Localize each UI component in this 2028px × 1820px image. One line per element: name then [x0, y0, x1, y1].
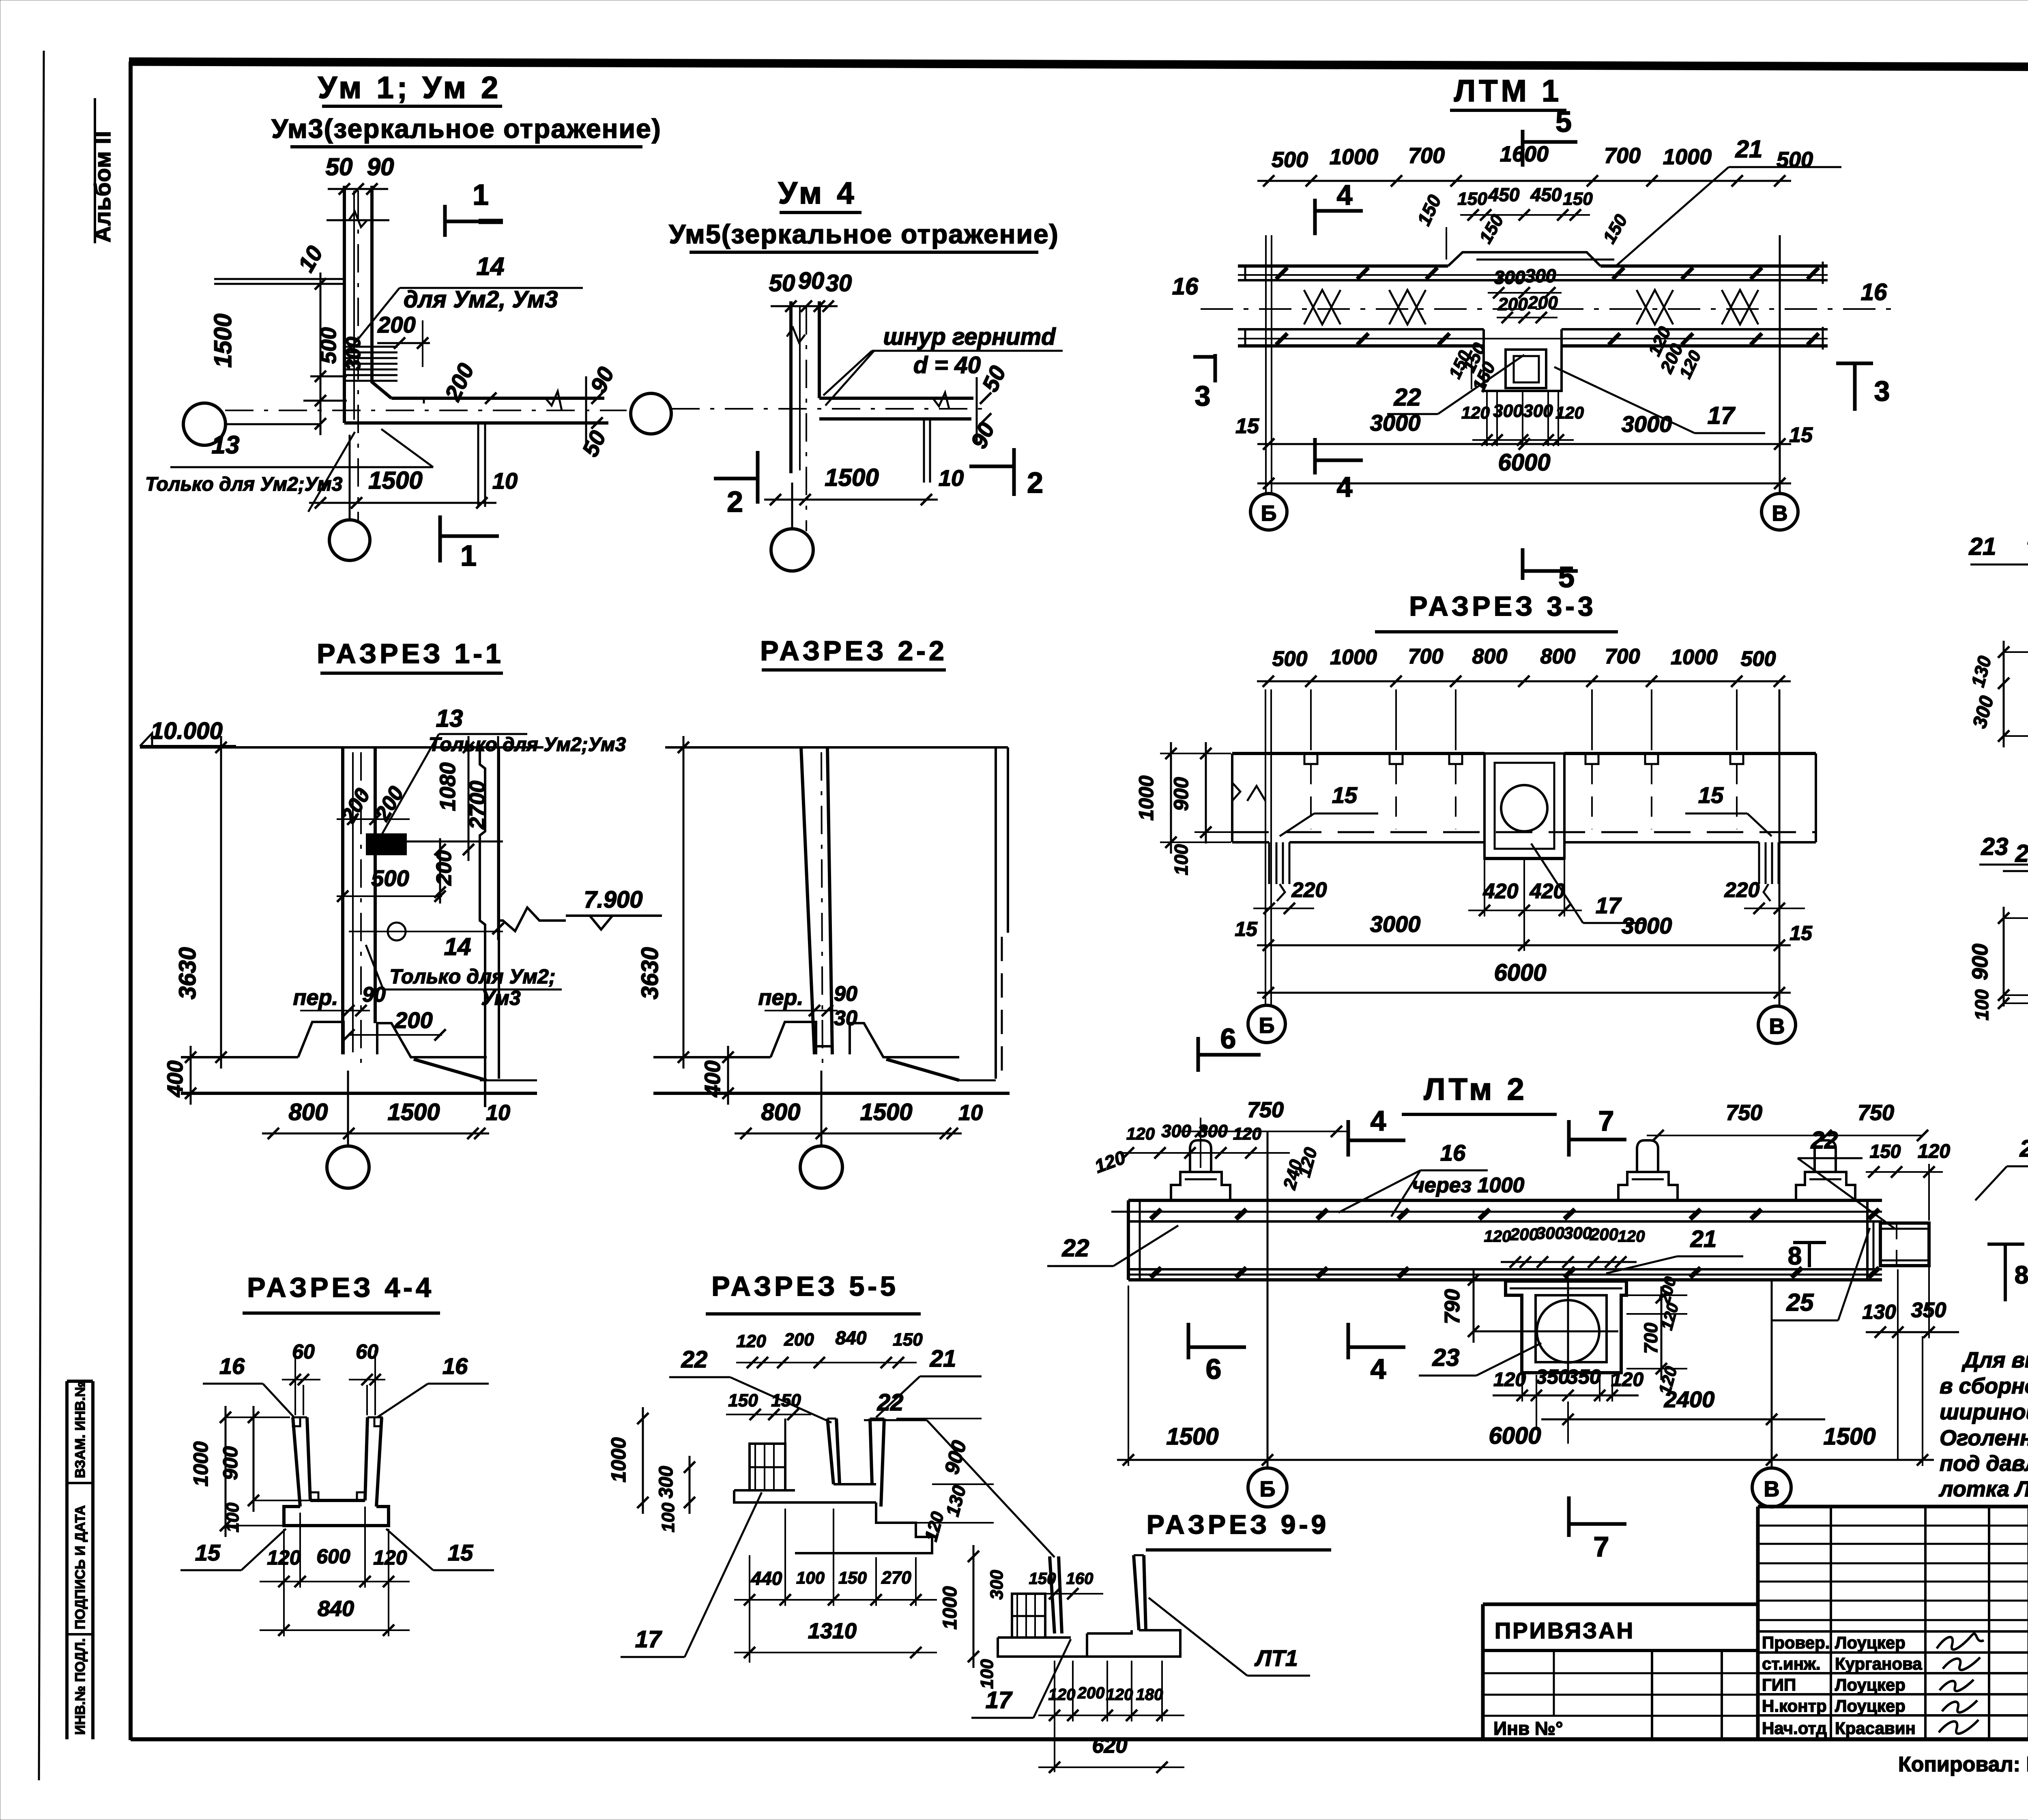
Um1 corner and horizontal wall [372, 379, 391, 398]
LTM2 axis circle B [1248, 1468, 1287, 1507]
LTM2 section mark 7 top [1567, 1120, 1571, 1157]
svg-text:Ум5(зеркальное отражение): Ум5(зеркальное отражение) [669, 219, 1059, 249]
svg-text:6000: 6000 [1494, 959, 1546, 986]
9-9 section body [1050, 1556, 1055, 1633]
svg-text:150: 150 [771, 1391, 801, 1410]
svg-text:300: 300 [1161, 1121, 1191, 1141]
svg-text:ВЗАМ. ИНВ.№: ВЗАМ. ИНВ.№ [73, 1382, 88, 1478]
svg-text:15: 15 [1332, 782, 1358, 808]
svg-text:23: 23 [1981, 833, 2009, 860]
svg-text:30: 30 [834, 1007, 857, 1030]
LTM2 section mark 4 top [1347, 1120, 1350, 1157]
svg-text:17: 17 [635, 1626, 662, 1653]
svg-text:500: 500 [1741, 647, 1776, 671]
svg-text:1000: 1000 [1135, 775, 1158, 820]
LTM1 axis circle B [1250, 494, 1287, 530]
2-2 bottom circle [800, 1146, 842, 1188]
svg-text:1000: 1000 [1663, 145, 1712, 169]
4-4 inner corner notches [310, 1492, 318, 1500]
1-1 right element profile [480, 747, 485, 1107]
svg-text:200: 200 [1527, 293, 1558, 313]
title block signatures scribbles [1937, 1634, 1984, 1650]
svg-text:900: 900 [1170, 777, 1192, 811]
svg-text:600: 600 [316, 1545, 350, 1568]
svg-text:14: 14 [477, 253, 505, 281]
svg-text:450: 450 [1530, 184, 1562, 205]
4-4 left dims 1000 900 100 [225, 1406, 227, 1537]
svg-text:150: 150 [1870, 1141, 1901, 1162]
svg-text:4: 4 [1337, 179, 1353, 211]
svg-text:220: 220 [1724, 878, 1760, 902]
svg-text:Ум 4: Ум 4 [778, 176, 857, 210]
svg-text:Красавин: Красавин [1835, 1719, 1916, 1738]
LTM2 hatch marks top band [1151, 1209, 1161, 1219]
5-5 section body [827, 1419, 834, 1484]
3-3 feet under slab right [1758, 842, 1760, 884]
LTM1 body bottom band [1238, 328, 1484, 331]
svg-text:РАЗРЕЗ 3-3: РАЗРЕЗ 3-3 [1409, 591, 1596, 622]
5-5 right dims 900 130 120 [896, 1418, 982, 1419]
svg-text:120: 120 [1618, 1228, 1645, 1245]
1-1 bottom circle [327, 1146, 369, 1188]
svg-text:200: 200 [432, 850, 456, 886]
svg-text:4: 4 [1371, 1105, 1386, 1137]
LTM1 top dim row [1257, 180, 1791, 182]
svg-text:Ум 1; Ум 2: Ум 1; Ум 2 [318, 71, 502, 105]
5-5 left dims 1000 300 150 150 [642, 1407, 644, 1514]
svg-text:ГИП: ГИП [1762, 1675, 1796, 1694]
9-9 dim 620 [1038, 1766, 1184, 1768]
svg-text:150: 150 [893, 1330, 923, 1350]
svg-text:16: 16 [443, 1353, 468, 1379]
LTM2 hump 2 [1618, 1172, 1678, 1200]
svg-text:21: 21 [1735, 135, 1763, 163]
svg-text:1000: 1000 [1330, 145, 1378, 169]
svg-text:420: 420 [1530, 880, 1565, 903]
svg-text:пер.: пер. [758, 985, 803, 1010]
svg-text:16: 16 [1861, 279, 1887, 305]
svg-text:220: 220 [1291, 878, 1327, 902]
svg-text:420: 420 [1483, 880, 1519, 903]
svg-text:шириной 1100 мм не нарушая: шириной 1100 мм не нарушая арматуру. [1940, 1400, 2028, 1424]
svg-text:100: 100 [796, 1568, 825, 1587]
svg-text:ЛТ1: ЛТ1 [1254, 1645, 1298, 1671]
svg-text:через 1000: через 1000 [1412, 1174, 1525, 1197]
svg-text:200: 200 [1077, 1684, 1105, 1702]
svg-text:15: 15 [1235, 918, 1258, 940]
3-3 dim 3000 3000 [1257, 944, 1791, 946]
svg-text:120: 120 [1611, 1369, 1643, 1391]
svg-text:1000: 1000 [189, 1441, 212, 1486]
4-4 U channel [293, 1417, 300, 1507]
svg-text:Альбом II: Альбом II [90, 131, 115, 243]
svg-text:500: 500 [1272, 148, 1308, 172]
svg-text:4: 4 [1371, 1353, 1386, 1385]
svg-text:13: 13 [212, 431, 240, 459]
svg-text:90: 90 [798, 268, 825, 294]
svg-text:840: 840 [318, 1597, 354, 1621]
3-3 axis circle B [1248, 1005, 1285, 1043]
LTM1 section mark 4 top-left [1313, 199, 1317, 235]
svg-text:Ум3: Ум3 [481, 987, 521, 1009]
LTM2 right end and sleeve [1866, 1200, 1869, 1280]
Um1 wall axis horizontal [225, 410, 627, 411]
svg-text:Оголенную арматуру зачистить: Оголенную арматуру зачистить, промыть во… [1940, 1426, 2028, 1450]
svg-text:120: 120 [1555, 403, 1584, 422]
LTM1 axis circle V [1762, 494, 1798, 530]
svg-text:Лоуцкер: Лоуцкер [1835, 1675, 1906, 1694]
svg-text:15: 15 [1698, 782, 1724, 808]
svg-text:3: 3 [1874, 375, 1890, 407]
svg-text:под давлением и завязать с: под давлением и завязать с арматурой [1940, 1451, 2028, 1476]
1-1 wall verticals [341, 747, 344, 1054]
title block signature grid [1756, 1507, 1760, 1739]
svg-text:В: В [1769, 1014, 1785, 1039]
svg-text:пер.: пер. [293, 985, 338, 1010]
LTM2 body [1128, 1199, 1882, 1202]
Um1 double line 10 below wall [477, 423, 479, 507]
3-3 body slab [1232, 752, 1484, 755]
svg-text:450: 450 [1488, 184, 1520, 205]
svg-text:10: 10 [939, 465, 964, 491]
svg-text:300: 300 [1525, 265, 1556, 286]
svg-text:15: 15 [1789, 423, 1813, 447]
svg-text:130: 130 [1862, 1301, 1896, 1323]
svg-text:24: 24 [2019, 1135, 2028, 1162]
svg-text:Копировал: Коршунова: Копировал: Коршунова [1898, 1753, 2028, 1776]
svg-text:100: 100 [1171, 844, 1192, 875]
svg-text:100: 100 [977, 1659, 997, 1689]
svg-text:120: 120 [1048, 1686, 1076, 1704]
3-3 dim 220 right [1744, 908, 1805, 909]
svg-text:200: 200 [377, 312, 415, 337]
svg-text:2400: 2400 [1664, 1386, 1715, 1412]
Um4 wall vertical [789, 301, 793, 473]
svg-text:23: 23 [1432, 1344, 1460, 1371]
3-3 dim 6000 [1257, 992, 1791, 994]
svg-text:14: 14 [444, 933, 471, 960]
Um1 wall vertical [343, 186, 346, 423]
Um4 bottom circle [771, 529, 813, 571]
svg-text:1310: 1310 [808, 1619, 857, 1643]
svg-text:30: 30 [826, 270, 852, 296]
svg-text:ИНВ.№ ПОДЛ.: ИНВ.№ ПОДЛ. [73, 1638, 88, 1735]
svg-text:400: 400 [700, 1060, 725, 1097]
svg-text:Только для Ум2;Ум3: Только для Ум2;Ум3 [429, 734, 626, 755]
svg-text:120: 120 [1918, 1141, 1950, 1162]
svg-text:ст.инж.: ст.инж. [1762, 1654, 1821, 1673]
Um1 seal comb detail [343, 346, 397, 348]
svg-text:840: 840 [836, 1327, 867, 1348]
svg-text:3000: 3000 [1622, 411, 1672, 437]
svg-text:5: 5 [1558, 561, 1575, 594]
svg-text:Только для Ум2;Ум3: Только для Ум2;Ум3 [145, 474, 343, 495]
svg-text:120: 120 [1106, 1686, 1133, 1704]
1-1 seal rect 13 [367, 835, 406, 854]
8-8 left dims 900 100 [2003, 907, 2005, 1007]
section mark 1 top [443, 205, 447, 237]
svg-text:1600: 1600 [1500, 142, 1549, 166]
svg-text:6: 6 [1206, 1353, 1222, 1385]
3-3 feet under slab left [1268, 842, 1270, 884]
svg-text:300: 300 [342, 337, 365, 371]
2-2 footing [653, 1056, 771, 1058]
svg-text:700: 700 [1604, 144, 1641, 168]
svg-text:1500: 1500 [825, 464, 879, 491]
svg-text:200: 200 [1497, 294, 1528, 314]
svg-text:100: 100 [658, 1502, 678, 1532]
LTM1 grid verticals [1265, 235, 1267, 494]
LTM2 section mark 7 bottom [1567, 1496, 1571, 1537]
svg-text:150: 150 [838, 1568, 867, 1587]
svg-text:ПОДПИСЬ И ДАТА: ПОДПИСЬ И ДАТА [73, 1505, 88, 1629]
svg-text:300: 300 [1198, 1121, 1228, 1141]
LTM2 dim 2400 [1541, 1419, 1825, 1421]
svg-text:лотка ЛТМ3.: лотка ЛТМ3. [1938, 1477, 2028, 1501]
LTM1 section mark 5 top [1521, 130, 1525, 167]
axis circle left [183, 403, 226, 445]
Um1 dim 90 50 right [585, 376, 587, 444]
svg-text:400: 400 [163, 1060, 187, 1097]
svg-text:Ум3(зеркальное отражение): Ум3(зеркальное отражение) [271, 114, 661, 144]
svg-text:300: 300 [1564, 1223, 1592, 1243]
section mark 2 left [756, 451, 760, 504]
1-1 bottom dims 800 1500 10 [262, 1133, 489, 1135]
svg-text:150: 150 [728, 1391, 758, 1410]
sheet outer edge line left [39, 51, 44, 1780]
svg-text:13: 13 [436, 705, 463, 732]
LTM1 section mark 4 bottom [1313, 438, 1317, 474]
svg-text:Только для Ум2;: Только для Ум2; [389, 965, 555, 988]
svg-text:РАЗРЕЗ 4-4: РАЗРЕЗ 4-4 [247, 1272, 434, 1303]
svg-text:120: 120 [1126, 1124, 1155, 1143]
2-2 wall tapered [801, 747, 814, 1054]
svg-text:700: 700 [1605, 645, 1640, 668]
svg-text:РАЗРЕЗ 9-9: РАЗРЕЗ 9-9 [1147, 1509, 1329, 1539]
svg-text:3: 3 [1195, 380, 1211, 412]
svg-text:15: 15 [448, 1540, 473, 1565]
svg-text:8: 8 [2015, 1261, 2028, 1289]
svg-text:Н.контр: Н.контр [1762, 1696, 1827, 1715]
svg-text:300: 300 [655, 1466, 677, 1498]
svg-text:10: 10 [958, 1101, 983, 1125]
svg-text:1500: 1500 [1823, 1423, 1875, 1450]
svg-text:790: 790 [1441, 1289, 1464, 1324]
Um4 wall top dim 50 90 30 [771, 305, 838, 307]
svg-text:1500: 1500 [209, 313, 236, 367]
LTM1 dim 3000 3000 [1257, 443, 1791, 445]
svg-text:200: 200 [394, 1007, 432, 1033]
sidebar stamp strip [65, 1381, 69, 1739]
3-3 axis circle V [1758, 1006, 1796, 1043]
svg-text:500: 500 [371, 865, 409, 891]
Um1 wall axis dashed [357, 191, 359, 520]
svg-text:750: 750 [1247, 1098, 1284, 1122]
svg-text:3630: 3630 [174, 947, 201, 999]
1-1 circle detail mark [388, 923, 406, 940]
svg-text:300: 300 [1494, 267, 1525, 288]
svg-text:440: 440 [751, 1568, 782, 1589]
svg-text:800: 800 [761, 1099, 801, 1125]
axis circle shared right [631, 393, 671, 434]
svg-text:Для выполнения монолитного: Для выполнения монолитного лотка ЛТм3 [1961, 1348, 2028, 1372]
4-4 bottom dims 120 600 120 [260, 1581, 410, 1582]
svg-text:350: 350 [1567, 1365, 1601, 1388]
svg-text:17: 17 [986, 1687, 1013, 1713]
svg-text:160: 160 [1066, 1570, 1093, 1588]
svg-text:1000: 1000 [939, 1586, 961, 1629]
svg-text:Б: Б [1259, 1013, 1275, 1038]
2-2 right element [995, 747, 997, 1079]
3-3 grid verticals [1265, 689, 1266, 1005]
svg-text:120: 120 [1233, 1124, 1261, 1143]
LTM2 hump 3 [1796, 1172, 1855, 1200]
svg-text:2: 2 [727, 486, 743, 518]
Um1 wall top break [327, 219, 389, 221]
svg-text:900: 900 [219, 1446, 242, 1480]
svg-text:750: 750 [1858, 1101, 1894, 1125]
svg-text:Б: Б [1260, 1477, 1276, 1501]
3-3 anchor stubs on top [1304, 753, 1317, 764]
LTM2 top-left dims 750 / 120 300 300 120 [1180, 1131, 1347, 1132]
svg-text:17: 17 [1596, 893, 1622, 918]
svg-text:10: 10 [486, 1101, 510, 1125]
LTM1 section mark 3 left [1214, 354, 1217, 382]
svg-text:d = 40: d = 40 [913, 352, 981, 378]
svg-text:100: 100 [1971, 989, 1992, 1020]
LTM2 bottom main dims 1500 6000 1500 [1117, 1459, 1934, 1461]
svg-text:3000: 3000 [1370, 911, 1421, 937]
svg-text:22: 22 [1394, 384, 1421, 411]
svg-text:620: 620 [1092, 1734, 1128, 1758]
svg-text:16: 16 [1440, 1140, 1466, 1165]
svg-text:6: 6 [1220, 1023, 1236, 1054]
4-4 dim 840 [260, 1629, 410, 1631]
LTM1 axis dashed 16 [1201, 308, 1896, 310]
svg-text:180: 180 [1136, 1686, 1163, 1704]
svg-text:16: 16 [219, 1353, 245, 1379]
LTM1 top bump trapezoid [1448, 252, 1600, 266]
svg-text:5: 5 [1555, 106, 1572, 138]
Um1 bottom circle [329, 520, 370, 560]
svg-text:1000: 1000 [607, 1437, 630, 1482]
svg-text:15: 15 [1235, 414, 1259, 438]
svg-text:Провер.: Провер. [1762, 1633, 1830, 1652]
3-3 section mark 6 bottom-left [1197, 1037, 1200, 1072]
LTM2 grid verticals [1267, 1131, 1269, 1466]
svg-text:300: 300 [987, 1570, 1007, 1600]
svg-text:16: 16 [1172, 273, 1199, 300]
svg-text:21: 21 [1690, 1226, 1717, 1252]
svg-text:РАЗРЕЗ 2-2: РАЗРЕЗ 2-2 [760, 635, 947, 666]
section mark 2 right [1012, 448, 1016, 496]
svg-text:200: 200 [784, 1330, 814, 1350]
2-2 bottom dims 800 1500 10 [735, 1133, 962, 1135]
svg-text:В: В [1772, 501, 1788, 526]
svg-text:3000: 3000 [1370, 410, 1421, 436]
svg-text:В: В [1764, 1477, 1780, 1501]
svg-text:1500: 1500 [860, 1099, 912, 1125]
LTM2 section mark 6 left [1187, 1323, 1190, 1359]
3-3 center opening with pipe [1484, 753, 1564, 858]
svg-text:700: 700 [1408, 645, 1444, 668]
svg-text:300: 300 [1536, 1223, 1564, 1243]
5-5 bottom dims 440 100 150 270 [734, 1599, 937, 1601]
2-2 floor line [665, 746, 1008, 749]
svg-text:150: 150 [1563, 189, 1593, 209]
9-9 left dims 1000 300 100 [973, 1545, 975, 1668]
svg-text:10: 10 [492, 468, 518, 494]
svg-text:270: 270 [881, 1568, 911, 1588]
svg-text:2: 2 [1027, 467, 1043, 499]
svg-text:900: 900 [1968, 944, 1992, 980]
svg-text:10.000: 10.000 [150, 718, 222, 744]
svg-text:ПРИВЯЗАН: ПРИВЯЗАН [1495, 1618, 1635, 1643]
Um1 dim 1500 left [320, 273, 322, 435]
svg-text:ЛТМ 1: ЛТМ 1 [1454, 74, 1562, 108]
drawing frame border [129, 62, 2028, 68]
svg-text:Курганова: Курганова [1835, 1654, 1922, 1673]
LTM2 top-right dims 750 750 [1647, 1135, 1923, 1136]
svg-text:350: 350 [1536, 1365, 1570, 1388]
svg-text:РАЗРЕЗ 5-5: РАЗРЕЗ 5-5 [711, 1271, 899, 1302]
svg-text:1: 1 [460, 540, 477, 572]
title block privyazan box [1483, 1603, 1758, 1606]
svg-text:4: 4 [1337, 471, 1353, 503]
svg-text:15: 15 [1790, 922, 1813, 944]
svg-text:500: 500 [316, 327, 341, 364]
LTM2 left overhang lines [1111, 1211, 1128, 1213]
svg-text:100: 100 [223, 1502, 243, 1532]
3-3 left overhang dims 1000 900 100 [1170, 742, 1172, 854]
svg-text:200: 200 [1510, 1225, 1538, 1244]
svg-text:1500: 1500 [368, 467, 422, 494]
svg-text:150: 150 [1457, 189, 1487, 209]
Um1 left double line 10 [214, 278, 344, 280]
svg-text:8: 8 [1788, 1242, 1802, 1270]
svg-text:50: 50 [769, 270, 795, 296]
section mark 1 bottom [438, 515, 442, 562]
Um1 bottom dim 1500 10 [309, 502, 496, 504]
svg-text:Инв №°: Инв №° [1493, 1718, 1563, 1739]
svg-text:750: 750 [1726, 1101, 1762, 1125]
LTM1 body top band [1238, 264, 1448, 268]
svg-text:в сборном лотке ЛТ1 вырезать: в сборном лотке ЛТ1 вырезать отверстие [1940, 1374, 2028, 1398]
svg-text:шнур гернитd: шнур гернитd [883, 324, 1056, 350]
LTM2 section mark 8 top [1808, 1243, 1811, 1267]
1-1 footing [181, 1056, 298, 1058]
svg-text:25: 25 [1786, 1289, 1814, 1316]
svg-text:800: 800 [1540, 645, 1576, 668]
svg-text:для Ум2, Ум3: для Ум2, Ум3 [404, 286, 558, 313]
svg-text:22: 22 [2015, 840, 2028, 867]
LTM2 right dims 150 120 [1866, 1171, 1943, 1173]
LTM2 bottom dims 120 350 350 120 [1493, 1395, 1639, 1397]
svg-text:500: 500 [1272, 647, 1308, 671]
title block small table [1553, 1650, 1555, 1716]
LTM1 chevrons inner [1304, 290, 1341, 324]
svg-text:6000: 6000 [1498, 449, 1550, 476]
Um4 horizontal wall [819, 397, 973, 400]
svg-text:120: 120 [1461, 403, 1490, 422]
svg-text:17: 17 [1708, 402, 1736, 429]
svg-text:120: 120 [373, 1546, 407, 1569]
svg-text:1000: 1000 [1330, 646, 1377, 669]
LTM2 section mark 4 bottom [1347, 1323, 1350, 1359]
3-3 extension verticals from dim row [1310, 689, 1312, 750]
LTM2 axis circle V [1752, 1468, 1791, 1507]
svg-text:3630: 3630 [637, 947, 663, 999]
